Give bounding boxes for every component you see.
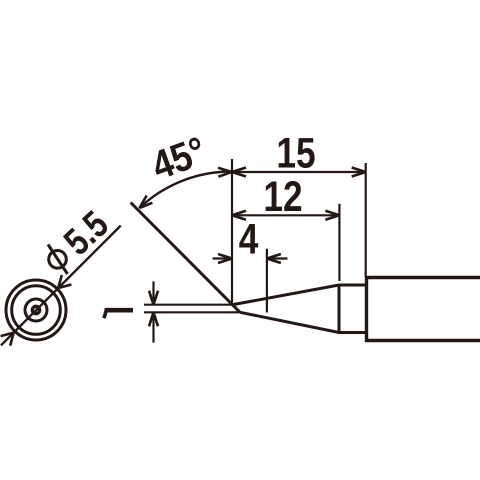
dimension text 4 [239, 215, 259, 263]
cylinder bottom line [339, 331, 367, 334]
diameter leader line through end view [1, 226, 121, 346]
dimension text 12 [263, 173, 302, 221]
45 degree bevel line [131, 203, 240, 313]
dimension text 5.5 rotated [57, 204, 117, 264]
dimension line 12 [232, 214, 339, 216]
dim1 lower arrowhead pointing up [149, 312, 158, 326]
dim15 left arrowhead [232, 168, 246, 177]
svg-text:15: 15 [276, 129, 315, 177]
extension line at body x365.7 [365, 163, 367, 277]
extension line at cone end x339.4 [338, 204, 340, 281]
svg-text:4: 4 [239, 215, 259, 263]
cone end vertical [338, 284, 341, 334]
dim15 right arrowhead [352, 168, 366, 177]
end view outer circle (sleeve OD) [6, 280, 66, 340]
end view center hole circle [32, 306, 39, 313]
dim1 upper extension line [144, 304, 232, 306]
arc arrowhead right pointing east [218, 168, 232, 177]
dim4 left arrowhead pointing right [218, 254, 232, 263]
cylinder top line [339, 284, 367, 287]
cone top edge [232, 285, 340, 305]
extension line at tip x232 [231, 159, 233, 303]
phi symbol of diameter label [48, 245, 68, 275]
dimension text 15 [276, 129, 315, 177]
dim12 right arrowhead [325, 211, 339, 220]
45 degree arc [139, 171, 232, 208]
svg-text:45°: 45° [146, 128, 212, 189]
leader arrowhead upper-right [58, 275, 71, 288]
dim1 lower extension line [144, 311, 240, 313]
dim4 right arrowhead pointing left [267, 254, 281, 263]
svg-text:12: 12 [263, 173, 302, 221]
leader arrowhead lower-left [1, 333, 14, 346]
end view third circle (cone mid) [25, 299, 47, 321]
dimension 4 right tail [267, 257, 288, 259]
extension line at x266.9 for dim 4 [266, 249, 268, 313]
dim12 left arrowhead [232, 211, 246, 220]
dimension text 1 rotated [104, 310, 133, 319]
body outline [367, 278, 480, 341]
dimension 4 left tail [213, 257, 233, 259]
cone bottom edge [240, 312, 339, 332]
dim1 upper arrowhead pointing down [149, 291, 158, 305]
dim1 upper arrow shaft [152, 281, 154, 304]
angle text 45 deg rotated [146, 128, 212, 189]
end view second circle (tip OD 5.5) [12, 286, 61, 335]
dimension line 15 [232, 171, 366, 173]
dim1 lower arrow shaft [152, 312, 154, 342]
arc arrowhead left pointing down-left [139, 196, 152, 209]
